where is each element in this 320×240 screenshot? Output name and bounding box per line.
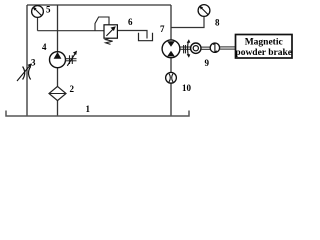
flow meter 10 (166, 72, 177, 83)
rotation direction arrow (187, 39, 191, 57)
svg-text:10: 10 (182, 83, 192, 93)
wire right vertical to motor (170, 5, 172, 40)
svg-text:2: 2 (70, 84, 75, 94)
wire left vertical (26, 5, 28, 116)
svg-text:Magnetic: Magnetic (245, 38, 283, 48)
shaft sensor to tachometer (201, 47, 210, 49)
relief valve 6 pilot line (95, 17, 109, 31)
relief valve 6 spring (106, 38, 113, 44)
coupling / torque sensor 9 (191, 43, 201, 53)
svg-text:8: 8 (215, 18, 220, 28)
svg-text:1: 1 (86, 104, 91, 114)
svg-text:powder brake: powder brake (235, 48, 292, 58)
svg-text:6: 6 (128, 17, 133, 27)
wire relief inlet (38, 30, 105, 32)
wire relief outlet (118, 31, 148, 39)
pump drive shaft with coupling and arrow (66, 51, 78, 66)
pressure gauge 8 (198, 5, 210, 17)
svg-text:7: 7 (160, 24, 165, 34)
relief valve 6 (104, 25, 117, 38)
wire motor to flow meter (170, 58, 172, 73)
wire pump supply vertical (57, 5, 59, 52)
tachometer (210, 43, 219, 52)
svg-text:4: 4 (42, 42, 47, 52)
wire flow meter to tank (170, 83, 172, 116)
wire filter to tank (57, 101, 59, 117)
throttle valve 3 (17, 63, 32, 81)
wire gauge8 branch (171, 17, 204, 28)
svg-text:3: 3 (31, 58, 36, 68)
motor shaft with coupling (180, 45, 191, 53)
svg-text:9: 9 (205, 58, 210, 68)
wire top line (27, 4, 171, 6)
wire pump to filter (57, 68, 59, 87)
pump 4 (50, 52, 66, 68)
hydraulic motor 7 (162, 40, 180, 58)
pressure gauge 5 (32, 6, 44, 18)
magnetic powder brake box (235, 35, 292, 59)
svg-text:5: 5 (46, 5, 51, 15)
filter 2 (49, 86, 66, 100)
tank 1 (6, 111, 189, 117)
drain tank symbol (139, 33, 153, 41)
wire gauge5 branch (37, 18, 39, 31)
shaft tachometer to brake (220, 47, 236, 49)
